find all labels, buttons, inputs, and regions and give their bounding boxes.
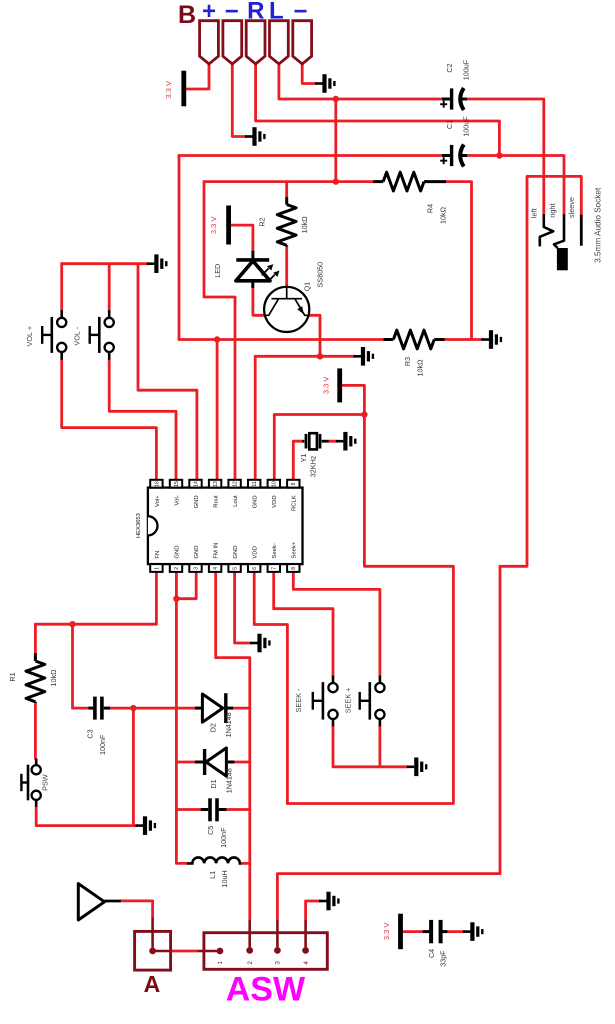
svg-text:33pF: 33pF [438,950,447,967]
svg-text:GND: GND [233,546,239,559]
svg-text:1N4148: 1N4148 [224,712,233,737]
IC U1 pin 6 (VDD) [248,564,260,572]
svg-text:4: 4 [213,567,219,570]
svg-text:8: 8 [291,567,297,570]
wire GND rail to C5 left [176,808,200,811]
ground (IC pin5) [250,634,269,653]
wire VDD rail up to IC pin6 [254,572,287,804]
svg-text:FM IN: FM IN [214,543,220,559]
svg-text:32KHz: 32KHz [308,455,317,477]
wire header B pin2 to ground [232,64,246,137]
svg-text:VOL +: VOL + [25,326,34,347]
3.5mm audio socket right pin [554,214,564,248]
connector B pin3 (R) [246,21,265,64]
IC U1 pin 16 (Vol+) [150,480,162,488]
IC U1 pin 7 (Seek-) [268,564,280,572]
connector ASW pin 1 [198,948,225,965]
wire VOL- top to ground rail [108,264,111,311]
svg-text:4: 4 [303,961,310,965]
IC U1 pin 1 (FN) [150,564,162,572]
wire connector A to ASW pin1 [171,950,198,953]
wire C3 node down to PSW ground line [132,708,135,826]
wire left rail Rout (vertical) [178,156,181,340]
wire VOL+ bottom to IC pin16 [62,360,157,480]
svg-text:16: 16 [154,481,160,487]
svg-text:GND: GND [194,495,200,508]
pushbutton SEEK- [313,676,338,727]
wire node down to VDD distribution rail [287,415,453,804]
svg-text:B: B [178,1,196,29]
capacitor C5 100nF [201,798,227,821]
pushbutton SEEK+ [360,676,385,727]
wire LED cathode to Q1 collector [253,288,264,315]
wire C5 right to FM-IN rail [226,808,249,811]
wire IC pin9 RCLK to crystal Y1 [293,441,302,480]
svg-text:R1: R1 [8,672,17,681]
junction pin2/pin3 GND node [173,596,179,602]
wire ASW pin4 to ground [306,901,320,920]
wire IC pin7 Seek- to SEEK- button [274,572,333,676]
wire header B pin3 (R) to C1 output node [256,64,500,155]
junction Lout node [333,178,339,184]
pushbutton PSW [21,759,40,807]
svg-text:R2: R2 [258,217,267,226]
svg-text:5: 5 [233,567,239,570]
wire IC pin8 Seek+ to SEEK+ button [293,572,380,676]
svg-text:sleeve: sleeve [567,197,576,218]
svg-text:100nF: 100nF [219,827,228,848]
wire 3.3V supply to node above crystal [342,385,364,414]
capacitor C4 33pF [423,920,448,943]
IC U1 HEX3653 body [148,488,303,564]
svg-text:R4: R4 [426,204,435,213]
svg-text:HEX3653: HEX3653 [136,513,142,538]
svg-text:10kΩ: 10kΩ [49,669,58,687]
svg-text:SEEK +: SEEK + [344,687,353,713]
wire C1 input from Rout rail [179,154,442,157]
svg-text:12: 12 [233,481,239,487]
svg-text:Vol+: Vol+ [155,495,161,507]
wire Rout node down to IC pin13 [216,340,219,480]
wire D2 cathode to FM-IN rail [233,707,250,710]
resistor R1 10k (PSW) [26,653,45,703]
svg-text:100nF: 100nF [98,734,107,755]
connector ASW pin 4 [302,920,310,964]
connector ASW pin 3 [274,920,282,964]
ground (ASW pin4) [319,892,338,911]
svg-text:ASW: ASW [226,971,306,1009]
resistor R2 10k (Q1 base) [277,197,296,246]
svg-text:1: 1 [217,961,224,965]
3.5mm audio socket plug body [557,248,568,270]
power 3.3V bar (VDD) [337,368,342,402]
transistor Q1 S8050 [264,287,309,332]
wire 3.3V to LED anode [231,225,253,251]
junction Q1 emitter GND node [317,353,323,359]
svg-text:SEEK -: SEEK - [294,688,303,712]
ground (PSW / C3) [136,816,155,835]
pushbutton VOL+ [42,310,66,360]
LED [236,251,279,288]
resistor R4 10k (Lout line) [373,172,446,191]
svg-text:10: 10 [272,481,278,487]
capacitor C1 100uF (polarized) [440,145,467,167]
IC U1 pin 15 (Vol-) [170,480,182,488]
svg-text:2: 2 [247,961,254,965]
svg-text:Vol-: Vol- [174,495,180,505]
svg-text:GND: GND [194,546,200,559]
svg-text:3.3 V: 3.3 V [164,81,173,99]
power 3.3V bar (header B) [181,71,186,107]
connector A box [135,931,171,970]
svg-text:100uF: 100uF [462,59,471,80]
capacitor C2 100uF (polarized) [440,88,467,110]
wire R3 right lead to ground [445,338,484,341]
wire audio socket sleeve to ASW pin3 (long rail) [277,176,581,920]
ground (crystal Y1) [336,432,355,451]
wire IC pin2 GND down to junction [175,572,178,599]
wire GND rail down to L1 left lead [176,599,187,864]
antenna [78,884,121,920]
wire 3.3V to C4 left [403,930,423,933]
svg-text:9: 9 [291,482,297,485]
svg-text:Rout: Rout [214,495,220,508]
IC U1 pin 14 (GND) [189,480,201,488]
svg-text:Lout: Lout [233,495,239,507]
wire C4 right to ground [447,930,464,933]
wire Lout line (R2 top / R4 left) [204,180,373,183]
svg-text:100uF: 100uF [462,116,471,137]
wire VOL+ top to ground rail [60,264,63,311]
3.5mm audio socket sleeve pin [580,215,583,246]
connector A pin [149,918,170,955]
IC U1 notch [148,516,158,535]
junction R1/pin1 node [69,621,75,627]
wire crystal Y1 to ground [329,440,337,443]
pushbutton VOL- [90,310,114,360]
svg-text:SS8050: SS8050 [316,262,325,288]
wire C2 output to audio socket left pin [467,99,544,215]
wire 3.3V to header B pin1 [186,64,209,89]
wire Q1 emitter to GND line [309,315,320,356]
wire R1 bottom to PSW top [34,703,37,759]
IC U1 pin 11 (GND) [248,480,260,488]
connector B pin2 (-) [223,21,242,64]
wire node to IC pin10 VDD [274,415,364,480]
svg-text:15: 15 [174,481,180,487]
svg-text:11: 11 [252,481,258,486]
svg-text:3.5mm Audio Socket: 3.5mm Audio Socket [594,187,603,263]
wire IC pin11 GND line to ground [255,356,355,480]
svg-text:RCLK: RCLK [292,495,298,511]
svg-text:1: 1 [154,567,160,570]
IC U1 pin 3 (GND) [189,564,201,572]
svg-text:3.3 V: 3.3 V [382,923,391,941]
crystal Y1 32KHz [302,433,328,449]
wire Rout line to R3 left lead [179,338,384,341]
ground (Q1 emitter / pin11) [354,347,373,366]
svg-text:VDD: VDD [272,495,278,507]
svg-text:GND: GND [253,495,259,508]
ground (R3) [482,330,501,349]
header B pin labels + - R L - [202,0,308,25]
ground (C4) [463,922,482,941]
IC U1 pin 13 (Rout) [209,480,221,488]
wire antenna to connector A [121,901,153,918]
wire VOL- bottom to IC pin15 [109,360,176,480]
3.5mm audio socket left pin [540,214,553,246]
connector ASW pin 2 [246,920,254,964]
wire IC pin3 GND to pin2 junction [176,572,196,599]
svg-text:13: 13 [213,481,219,487]
junction Rout node [214,336,220,342]
svg-text:GND: GND [174,546,180,559]
svg-text:C1: C1 [445,120,454,129]
wire node C2-in down to Lout line [334,99,337,182]
junction C2 input node [333,96,339,102]
junction C1 output node [496,152,502,158]
IC U1 pin 4 (FM IN) [209,564,221,572]
wire header B pin4 (L) to C2 input node [279,64,336,99]
IC U1 pin 8 (Seek+) [287,564,299,572]
ground (header B pin5) [315,74,334,93]
wire R2 bottom to Q1 base [285,246,288,287]
inductor L1 10uH [187,857,241,863]
svg-text:3.3 V: 3.3 V [322,377,331,395]
wire R4 right lead down to R3 line [446,182,472,340]
ground (header B pin2) [245,127,264,146]
svg-text:+: + [202,0,216,25]
wire header B pin5 to ground [302,64,316,84]
wire R1 node down to C3 left [73,624,89,708]
diode D1 1N4148 [195,748,235,776]
svg-text:FN: FN [155,551,161,559]
svg-text:7: 7 [272,567,278,570]
svg-text:R: R [247,0,264,25]
ground (SEEK buttons) [407,758,426,777]
capacitor C3 100nF [88,697,110,720]
svg-text:C4: C4 [427,949,436,958]
svg-text:2: 2 [174,567,180,570]
wire C1 output to audio socket right pin [467,156,564,215]
svg-text:D1: D1 [209,779,218,788]
wire D1 anode to FM-IN rail [234,761,249,764]
connector ASW box [204,933,327,970]
svg-text:left: left [530,208,539,218]
svg-text:Seek-: Seek- [272,543,278,558]
svg-text:10kΩ: 10kΩ [438,206,447,224]
junction C3/PSW node [130,705,136,711]
wire node C2-in to C2 left lead [336,98,442,101]
svg-text:10kΩ: 10kΩ [416,359,425,377]
wire IC pin1 FN to R1 top [35,572,156,653]
svg-text:3: 3 [275,961,282,965]
wire GND rail to D1 cathode [176,761,195,764]
wire SEEK- bottom to ground [333,726,408,767]
wire L1 right to FM-IN rail [241,862,250,865]
svg-text:PSW: PSW [41,774,50,791]
svg-text:Seek+: Seek+ [292,541,298,558]
svg-text:C3: C3 [86,729,95,738]
wire ground rail down to IC pin14 [138,264,197,480]
wire Lout line down to IC pin12 [204,182,235,480]
connector B pin5 (-) [293,21,312,64]
IC U1 pin 2 (GND) [170,564,182,572]
svg-text:Y1: Y1 [299,454,308,463]
svg-text:3.3 V: 3.3 V [209,217,218,235]
svg-text:L: L [269,0,284,25]
wire PSW bottom to ground [36,807,136,826]
wire R2 top to Lout line [285,182,288,198]
IC U1 pin 5 (GND) [228,564,240,572]
svg-text:−: − [293,0,307,25]
svg-text:6: 6 [252,567,258,570]
wire SEEK+ bottom to ground line [378,726,381,767]
svg-text:VOL -: VOL - [73,326,82,345]
svg-text:10kΩ: 10kΩ [300,216,309,234]
resistor R3 10k (Rout line) [384,330,445,349]
svg-text:Q1: Q1 [303,282,312,292]
wire C3 node to D2 anode [133,707,195,710]
svg-text:C5: C5 [206,826,215,835]
svg-text:14: 14 [193,481,199,487]
power 3.3V bar (LED) [226,206,231,245]
svg-text:L1: L1 [208,871,217,879]
connector B pin4 (L) [270,21,289,64]
svg-text:A: A [144,971,161,997]
svg-text:R3: R3 [403,357,412,366]
ground (VOL buttons rail) [147,254,166,273]
power 3.3V bar (C4) [398,914,403,950]
IC U1 pin 9 (RCLK) [287,480,299,488]
svg-text:3: 3 [193,567,199,570]
wire C3 right lead to node [110,707,133,710]
svg-text:right: right [548,203,557,217]
svg-text:−: − [225,0,239,25]
IC U1 pin 10 (VDD) [268,480,280,488]
svg-text:VDD: VDD [253,546,259,558]
svg-text:1N4148: 1N4148 [224,768,233,793]
connector B pin1 (+) [200,21,219,64]
svg-text:D2: D2 [209,723,218,732]
svg-text:LED: LED [213,264,222,278]
junction 3.3V VDD node [361,411,367,417]
svg-text:10uH: 10uH [220,870,229,887]
diode D2 1N4148 [195,693,233,723]
wire ground rail to ground symbol [62,262,148,265]
wire IC pin4 FM-IN to diode rail [216,572,250,920]
svg-text:C2: C2 [445,63,454,72]
IC U1 pin 12 (Lout) [228,480,240,488]
wire IC pin5 GND to ground [235,572,251,643]
